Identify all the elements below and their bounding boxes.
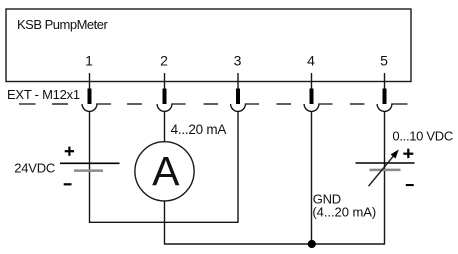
svg-text:EXT - M12x1: EXT - M12x1 [7, 87, 80, 102]
wire ground run ammeter to source [165, 243, 385, 245]
svg-text:5: 5 [380, 52, 388, 68]
pin 3 socket cup [231, 104, 259, 111]
svg-text:0...10 VDC: 0...10 VDC [392, 128, 453, 143]
pin 3 lead wire [237, 73, 239, 90]
device box U1 (KSB PumpMeter) [6, 9, 411, 82]
svg-text:2: 2 [160, 52, 168, 68]
svg-text:24VDC: 24VDC [14, 160, 55, 175]
ammeter P1 body [135, 142, 194, 201]
svg-text:4: 4 [307, 52, 315, 68]
pin 4 lead wire [311, 73, 313, 90]
pin 2 socket cup [157, 104, 185, 111]
pin 1 contact bar [88, 89, 92, 105]
source minus sign [406, 184, 414, 186]
svg-text:4...20 mA: 4...20 mA [171, 122, 227, 137]
battery plus sign [65, 147, 74, 156]
wire bottom run battery to pin3 [89, 221, 238, 223]
pin 1 lead wire [89, 73, 91, 90]
source plus sign [403, 149, 413, 158]
pin 5 contact bar [383, 89, 387, 105]
wire pin2 to ammeter [164, 111, 166, 142]
svg-text:1: 1 [85, 52, 93, 68]
dashed separator line (connector boundary) [19, 103, 365, 105]
pin 4 socket cup [304, 104, 332, 111]
pin 4 contact bar [310, 89, 314, 105]
battery B1 24VDC: negative plate [74, 169, 103, 172]
battery B1 24VDC: positive plate [60, 162, 120, 164]
pin 5 lead wire [384, 73, 386, 90]
svg-text:(4...20 mA): (4...20 mA) [312, 205, 376, 220]
pin 2 lead wire [164, 73, 166, 90]
variable source G1: positive plate [356, 162, 415, 164]
pin 2 contact bar [163, 89, 167, 105]
wire pin5 to source + [384, 111, 386, 244]
wire ammeter down [164, 201, 166, 245]
svg-text:KSB PumpMeter: KSB PumpMeter [17, 17, 108, 32]
pin 5 socket cup [377, 104, 407, 111]
variable source G1: negative plate [370, 169, 401, 172]
junction node (GND) [308, 240, 316, 248]
svg-text:A: A [152, 148, 180, 194]
battery minus sign [64, 183, 72, 185]
wire pin3 down to bottom run [237, 111, 239, 222]
pin 3 contact bar [236, 89, 240, 105]
pin 1 socket cup [82, 104, 111, 111]
wire pin1 to battery + [89, 111, 91, 222]
svg-text:3: 3 [234, 52, 242, 68]
wire pin4 down to ground run [311, 111, 313, 244]
variable source adjustment arrow head [391, 150, 399, 159]
variable source adjustment arrow shaft [369, 156, 394, 186]
